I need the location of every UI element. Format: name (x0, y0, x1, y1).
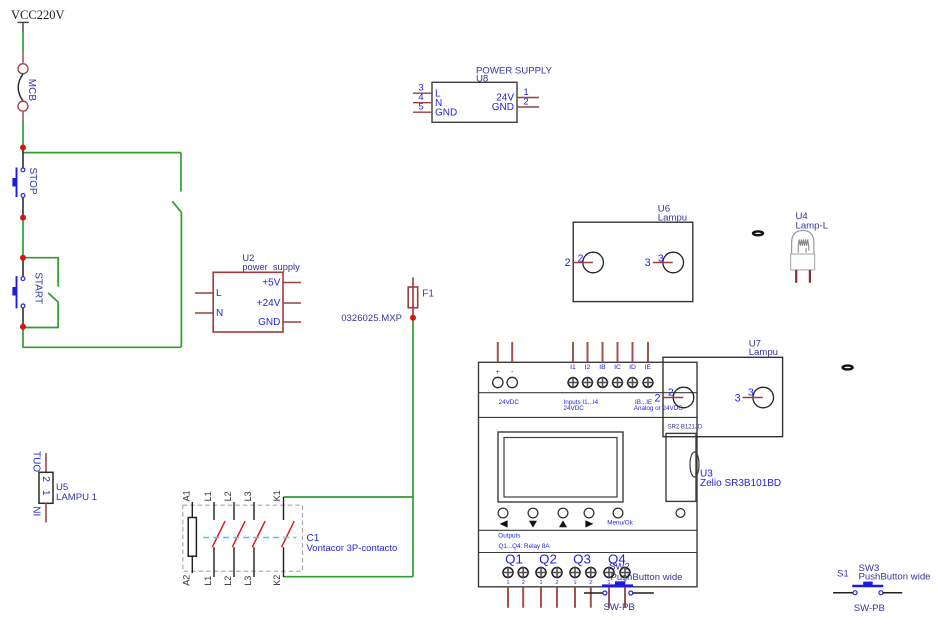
svg-text:A2: A2 (181, 575, 191, 586)
svg-text:GND: GND (492, 102, 514, 113)
svg-text:F1: F1 (422, 289, 434, 300)
svg-text:2: 2 (565, 257, 571, 269)
svg-text:S1: S1 (837, 569, 849, 580)
svg-text:1: 1 (574, 580, 577, 586)
PLC menu buttons (498, 508, 685, 528)
svg-text:N: N (216, 308, 223, 319)
contact L3 (253, 502, 255, 520)
svg-text:K2: K2 (272, 575, 282, 586)
junction D (20, 324, 26, 330)
pin +24V of U2 (283, 302, 301, 304)
svg-text:+: + (496, 369, 500, 376)
pin 3 of U6 (653, 262, 673, 264)
pin N of U2 (195, 312, 213, 314)
svg-text:Q1...Q4: Relay 8A: Q1...Q4: Relay 8A (499, 543, 551, 550)
svg-text:MCB: MCB (26, 79, 37, 102)
coil A1/A2 (191, 502, 193, 518)
svg-text:PushButton wide: PushButton wide (859, 572, 931, 583)
op U2 power_supply (195, 253, 301, 332)
svg-text:power_supply: power_supply (242, 262, 300, 272)
svg-text:K1: K1 (272, 490, 282, 501)
svg-text:5: 5 (418, 102, 423, 113)
svg-text:2: 2 (578, 253, 584, 265)
svg-text:L2: L2 (223, 491, 233, 501)
svg-text:L3: L3 (243, 576, 253, 586)
switch S1 SW3 PushButton wide (833, 563, 930, 614)
svg-text:+24V: +24V (257, 298, 281, 309)
svg-text:A1: A1 (181, 490, 191, 501)
svg-text:LAMPU 1: LAMPU 1 (56, 492, 97, 503)
contactor C1 Vontacor 3P-contacto (181, 490, 397, 585)
svg-text:Vontacor 3P-contacto: Vontacor 3P-contacto (307, 543, 398, 554)
svg-text:Q3: Q3 (573, 551, 591, 566)
lamp U5 LAMPU 1 (31, 451, 97, 523)
junction F1 out (410, 315, 416, 321)
svg-text:1: 1 (40, 490, 51, 496)
pin 4 N of U8 (413, 102, 432, 104)
lamp U7 Lampu (654, 338, 782, 436)
svg-text:24VDC: 24VDC (564, 405, 585, 412)
PLC LCD screen (498, 432, 623, 502)
svg-text:I1: I1 (570, 364, 576, 371)
svg-text:L1: L1 (203, 491, 213, 501)
pin 3 L of U8 (413, 92, 432, 94)
svg-text:3: 3 (658, 253, 664, 265)
wire left rail down to bottom loop (23, 327, 181, 348)
junction B (20, 215, 26, 221)
svg-text:2: 2 (522, 580, 525, 586)
lamp U4 Lamp-L (791, 211, 829, 283)
lamp U6 Lampu (565, 203, 693, 301)
bulb dome (792, 231, 814, 255)
svg-text:24VDC: 24VDC (499, 399, 520, 406)
lamp mini icon left of U4 (753, 231, 763, 235)
pin 3 of U7 (743, 397, 763, 399)
svg-text:NI: NI (31, 506, 42, 516)
pin GND of U2 (283, 321, 301, 323)
PLC U3 Zelio main module (479, 342, 698, 587)
svg-text:Analog or 24VDC: Analog or 24VDC (634, 405, 683, 412)
svg-text:Lampu: Lampu (749, 347, 778, 358)
svg-text:3: 3 (645, 257, 651, 269)
svg-text:Lamp-L: Lamp-L (796, 221, 829, 232)
contact K1/K2 (283, 497, 285, 520)
terminal + (497, 342, 499, 362)
svg-text:L3: L3 (243, 491, 253, 501)
svg-text:GND: GND (258, 317, 280, 328)
wire F1 to contactor K (284, 318, 414, 577)
svg-text:2: 2 (523, 97, 528, 108)
switch SW2 PushButton wide (overlapping PLC) (584, 581, 654, 613)
wire junction A to latch contact (23, 152, 181, 154)
svg-text:-: - (511, 369, 514, 376)
svg-text:START: START (32, 272, 43, 304)
lamp mini icon right of U7 (843, 366, 853, 370)
svg-text:Outputs: Outputs (498, 533, 520, 540)
svg-text:1: 1 (540, 580, 543, 586)
svg-text:Menu/Ok: Menu/Ok (607, 519, 633, 526)
switch STOP (12, 149, 38, 216)
wire MCB to junction (22, 121, 24, 148)
svg-text:L: L (216, 288, 222, 299)
junction C (20, 255, 26, 261)
node VCC220V power flag (11, 8, 64, 32)
svg-text:SR2 B121JD: SR2 B121JD (668, 425, 703, 431)
svg-text:Zelio SR3B101BD: Zelio SR3B101BD (700, 478, 781, 489)
svg-text:ID: ID (629, 364, 636, 371)
breaker MCB (18, 52, 37, 121)
svg-text:SW-PB: SW-PB (604, 602, 635, 613)
wire START bypass contact (23, 258, 58, 328)
svg-text:IB: IB (599, 364, 606, 371)
junction A (20, 145, 26, 151)
svg-text:L1: L1 (203, 576, 213, 586)
svg-text:2: 2 (40, 476, 51, 482)
svg-text:GND: GND (435, 107, 457, 118)
svg-text:3: 3 (748, 386, 754, 398)
svg-text:1: 1 (507, 580, 510, 586)
svg-text:STOP: STOP (27, 168, 38, 195)
svg-text:VCC220V: VCC220V (11, 8, 64, 22)
contact L2 (233, 502, 235, 520)
svg-text:2: 2 (654, 392, 660, 404)
latch contact (sealing contact in loop) (172, 153, 181, 348)
svg-text:2: 2 (668, 386, 674, 398)
pin L of U2 (195, 292, 213, 294)
filament (798, 240, 809, 253)
svg-text:SW2: SW2 (609, 562, 630, 573)
pins (796, 270, 810, 283)
wire VCC to MCB (22, 32, 24, 52)
svg-text:IC: IC (614, 364, 621, 371)
svg-text:L2: L2 (223, 576, 233, 586)
pin 2 of U7 (662, 397, 683, 399)
svg-text:3: 3 (735, 392, 741, 404)
switch START (12, 260, 43, 326)
svg-text:0326025.MXP: 0326025.MXP (341, 313, 402, 324)
svg-text:2: 2 (589, 580, 592, 586)
terminal - (511, 342, 513, 362)
svg-text:SW-PB: SW-PB (854, 603, 885, 614)
pin 2 of U6 (572, 262, 593, 264)
PLC U3 expansion box (666, 425, 781, 502)
pin +5V of U2 (283, 282, 301, 284)
pin 1 24V of U8 (517, 97, 539, 99)
svg-text:I2: I2 (585, 364, 591, 371)
base (791, 254, 815, 270)
pin 2 GND of U8 (517, 106, 539, 108)
linkage dashed line (203, 537, 296, 539)
svg-text:Q1: Q1 (505, 551, 523, 566)
svg-text:+5V: +5V (262, 277, 280, 288)
pin 5 GND of U8 (413, 111, 432, 113)
PLC input terminals I1 I2 IB IC ID IE (567, 342, 654, 388)
contact L1 (213, 502, 215, 520)
op U8 POWER SUPPLY (413, 66, 553, 123)
wire junction B to junction C (22, 219, 24, 256)
svg-text:2: 2 (556, 580, 559, 586)
svg-text:IE: IE (645, 364, 652, 371)
fuse F1 (341, 278, 434, 325)
svg-text:TUO: TUO (31, 451, 42, 472)
svg-text:Q2: Q2 (539, 551, 557, 566)
PLC outputs section (498, 533, 682, 608)
